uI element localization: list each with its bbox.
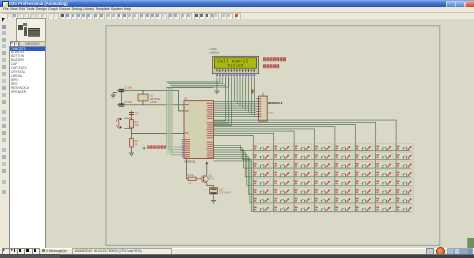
minimize button (446, 1, 456, 8)
button bed 4-3 (293, 169, 311, 176)
button bed 6-5 (334, 187, 352, 194)
bus column scan lines (214, 120, 397, 143)
svg-text:12MHz: 12MHz (150, 102, 158, 104)
svg-text:RESPACK-8: RESPACK-8 (268, 102, 283, 105)
button bed 7-7 (375, 196, 393, 203)
main toolbar (0, 12, 474, 22)
crystal X1 (138, 90, 161, 105)
label 病房1(床位) red text (147, 145, 166, 148)
button bed 8-5 (334, 204, 352, 211)
capacitor C1 (119, 87, 133, 92)
button bed 5-8 (395, 178, 413, 185)
svg-text:CRYSTAL: CRYSTAL (150, 97, 161, 100)
button bed 4-5 (334, 169, 352, 176)
button bed 1-4 (314, 143, 332, 150)
button bed 4-6 (354, 169, 372, 176)
ime icons (447, 248, 454, 254)
button bed 2-1 (252, 152, 270, 159)
wires LCD RS RW E to MCU right (214, 77, 232, 125)
button bed 7-1 (252, 196, 270, 203)
button bed 7-5 (334, 196, 352, 203)
button bed 6-4 (314, 187, 332, 194)
LCD pin numbers blue (216, 74, 255, 76)
button bed 7-6 (354, 196, 372, 203)
wire reset vertical (131, 110, 133, 153)
column vertical wires (253, 143, 396, 211)
playback controls (2, 248, 11, 255)
L button (14, 41, 19, 46)
button bed 3-4 (314, 161, 332, 168)
button bed 5-1 (252, 178, 270, 185)
svg-text:C3: C3 (135, 111, 139, 115)
sheet border frame (106, 25, 440, 245)
button bed 3-6 (354, 161, 372, 168)
device list box (9, 46, 46, 250)
button bed 4-4 (314, 169, 332, 176)
button bed 1-6 (354, 143, 372, 150)
power +5V (respack) (251, 90, 254, 94)
MCU U1 AT89C51 (184, 96, 214, 163)
wires LCD data down (234, 77, 254, 117)
menu bar (0, 7, 474, 12)
button bed 7-4 (314, 196, 332, 203)
button bed 1-2 (273, 143, 291, 150)
button bed 8-1 (252, 204, 270, 211)
taskbar strip (0, 254, 474, 258)
button bed 2-5 (334, 152, 352, 159)
tray orange icon (436, 247, 445, 256)
reset button (116, 118, 131, 129)
overview window (16, 18, 46, 42)
message indicator (42, 249, 45, 252)
left strip icons (2, 25, 6, 29)
close button (465, 1, 474, 8)
button bed 8-7 (375, 204, 393, 211)
svg-text:6(2)56: 6(2)56 (228, 63, 245, 68)
svg-text:SOUNDER: SOUNDER (219, 191, 231, 194)
annotation 呼叫的人数 (263, 64, 279, 68)
second strip icons (9, 19, 13, 24)
button bed 6-6 (354, 187, 372, 194)
button bed 3-8 (395, 161, 413, 168)
MCU pin name strips (185, 102, 213, 157)
wire band LCD controls (167, 87, 184, 154)
capacitor C2 (119, 102, 133, 107)
button bed 2-8 (395, 152, 413, 159)
button bed 6-2 (273, 187, 291, 194)
wires LCD control to band (167, 77, 229, 87)
button bed 2-3 (293, 152, 311, 159)
svg-text:NPN: NPN (209, 177, 214, 180)
wire osc bottom (117, 103, 184, 105)
button bed 8-6 (354, 204, 372, 211)
buzzer BUZ1 (207, 182, 231, 194)
app icon (2, 1, 9, 8)
ground (reset) (129, 153, 134, 156)
svg-text:U1: U1 (184, 96, 188, 100)
resistor R2 (130, 138, 139, 147)
wire RST to MCU (132, 132, 185, 134)
button bed 2-7 (375, 152, 393, 159)
svg-text:X1: X1 (150, 95, 154, 97)
button bed 5-4 (314, 178, 332, 185)
wires P0 bus to respack (214, 101, 256, 116)
svg-text:C2 30p: C2 30p (125, 102, 133, 104)
svg-text:RP1: RP1 (269, 111, 275, 115)
window right border line (467, 238, 468, 249)
button bed 4-7 (375, 169, 393, 176)
P button (10, 41, 15, 46)
button bed 3-5 (334, 161, 352, 168)
svg-text:1k: 1k (189, 182, 192, 185)
button bed 3-7 (375, 161, 393, 168)
button bed 1-8 (395, 143, 413, 150)
capacitor C3 (reset top) (129, 111, 139, 115)
maximize button (455, 1, 465, 8)
animating readout (72, 248, 172, 254)
MCU pin numbers blue left (182, 139, 184, 157)
svg-text:R3 1k: R3 1k (188, 174, 195, 177)
button bed 4-8 (395, 169, 413, 176)
LCD pin name ticks (216, 69, 254, 71)
bus row scan lines (214, 145, 411, 211)
button bed 7-2 (273, 196, 291, 203)
button bed 6-1 (252, 187, 270, 194)
button bed 8-4 (314, 204, 332, 211)
left tool strip (0, 19, 9, 255)
cursor arrow icon (2, 18, 5, 22)
svg-text:C1 30p: C1 30p (125, 87, 133, 89)
resistor R3 (base) (188, 174, 202, 185)
button bed 8-3 (293, 204, 311, 211)
wire osc top (117, 90, 184, 111)
button bed 5-2 (273, 178, 291, 185)
resistor pack RP1 RESPACK-8 (256, 92, 283, 121)
node marker (143, 146, 146, 149)
button bed 1-1 (252, 143, 270, 150)
button bed 1-3 (293, 143, 311, 150)
button bed 3-2 (273, 161, 291, 168)
button bed 2-2 (273, 152, 291, 159)
ground (LCD VSS) (214, 77, 219, 93)
button bed 5-7 (375, 178, 393, 185)
title text (9, 1, 68, 6)
button bed 1-7 (375, 143, 393, 150)
wire to EA (167, 86, 213, 88)
resistor R1 (reset pullup) (129, 119, 139, 127)
button bed 8-2 (273, 204, 291, 211)
button bed 7-3 (293, 196, 311, 203)
wire osc vertical (121, 90, 123, 105)
status bar (0, 248, 474, 255)
toolbar icons (2, 13, 8, 20)
green desktop sliver (468, 238, 474, 251)
button bed 6-7 (375, 187, 393, 194)
overview minimap blobs (18, 25, 23, 31)
annotation 正在处理的床位 (263, 57, 286, 61)
power arrow (collector) (205, 161, 208, 175)
title bar (0, 0, 474, 7)
button bed 4-1 (252, 169, 270, 176)
ground (crystal circuit) (111, 92, 118, 97)
button bed 6-3 (293, 187, 311, 194)
tray grey icon (426, 248, 434, 255)
svg-text:LM016L: LM016L (210, 50, 221, 54)
button bed 5-6 (354, 178, 372, 185)
transistor Q1 (201, 174, 214, 182)
button bed 3-1 (252, 161, 270, 168)
button bed 6-8 (395, 187, 413, 194)
button bed 3-3 (293, 161, 311, 168)
button bed 1-5 (334, 143, 352, 150)
button bed 8-8 (395, 204, 413, 211)
button bed 5-5 (334, 178, 352, 185)
ground (buzzer) (211, 193, 216, 202)
left panel background (8, 19, 48, 255)
button bed 5-3 (293, 178, 311, 185)
button bed 7-8 (395, 196, 413, 203)
LCD LCD1 module (213, 56, 259, 73)
button bed 4-2 (273, 169, 291, 176)
svg-text:10k: 10k (135, 123, 140, 127)
button bed 2-6 (354, 152, 372, 159)
svg-text:AT89C51: AT89C51 (184, 159, 196, 163)
button bed 2-4 (314, 152, 332, 159)
wire MCU to base resistor (187, 158, 189, 178)
DEVICES header (19, 41, 46, 47)
